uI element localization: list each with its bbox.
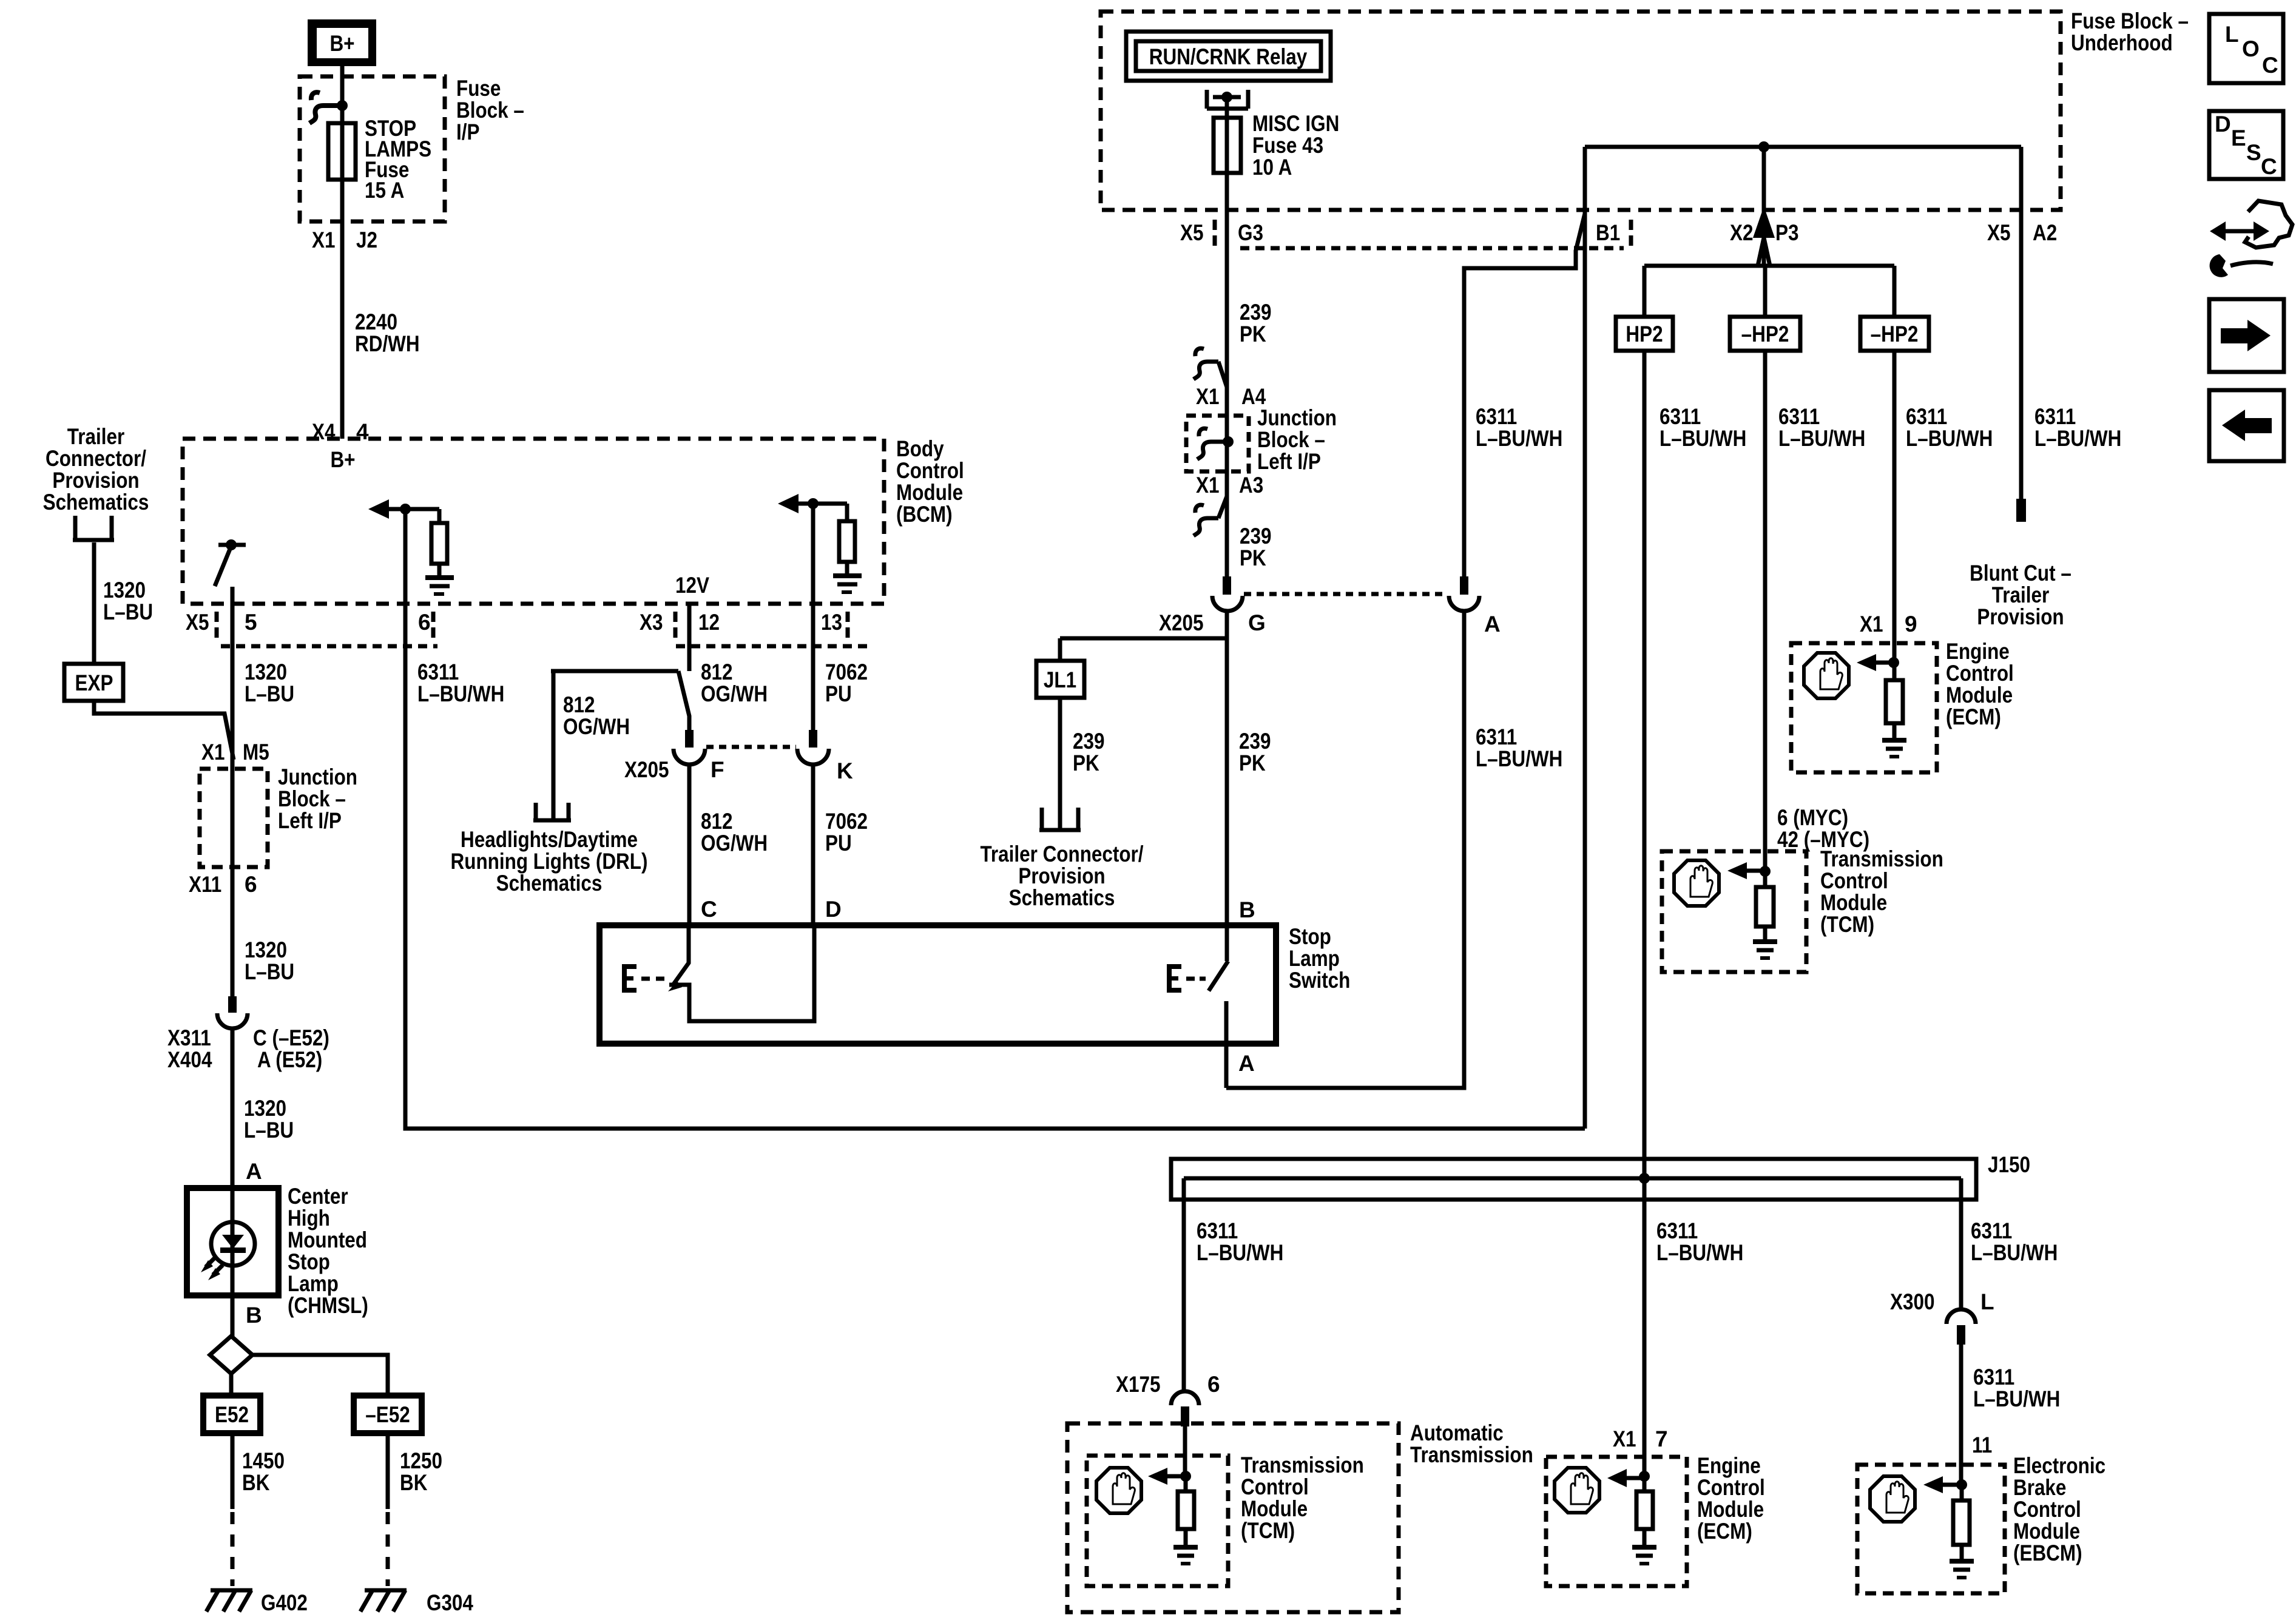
HP2 box (1616, 317, 1673, 351)
svg-text:1450: 1450 (242, 1448, 285, 1473)
svg-text:6: 6 (418, 610, 431, 635)
label Electronic Brake Control Module (EBCM) (2013, 1453, 2105, 1565)
label Trailer Connector/Provision Schematics (middle) (980, 842, 1143, 910)
wire HP2 down to J150 (1643, 351, 1647, 1474)
hook connector below X1 A3 (1194, 496, 1227, 536)
svg-text:Provision: Provision (1018, 863, 1105, 888)
svg-text:15 A: 15 A (365, 178, 404, 203)
svg-text:(EBCM): (EBCM) (2013, 1541, 2082, 1565)
BCM dashed box (183, 439, 884, 604)
svg-text:2240: 2240 (355, 309, 397, 334)
svg-text:–HP2: –HP2 (1741, 322, 1789, 346)
svg-text:X1: X1 (1196, 473, 1220, 498)
svg-text:X5: X5 (1987, 220, 2011, 245)
svg-text:(TCM): (TCM) (1820, 912, 1874, 937)
pin labels X1 J2 (312, 228, 377, 252)
svg-text:Engine: Engine (1697, 1453, 1761, 1478)
ECM dashed box (lower) (1546, 1457, 1687, 1586)
svg-text:K: K (837, 758, 853, 783)
switch pole C and blade (674, 925, 689, 984)
svg-text:12: 12 (698, 610, 720, 635)
connector row G3 (dotted) (1240, 246, 1624, 251)
label Junction Block - Left I/P (1257, 405, 1337, 474)
svg-text:E52: E52 (215, 1402, 249, 1427)
svg-text:Fuse Block –: Fuse Block – (2071, 8, 2189, 33)
connector X205 terminal A (1449, 576, 1479, 611)
connector X300 terminal L (1947, 1309, 1976, 1345)
wire BCM pin13 7062 PU (811, 504, 815, 730)
label Body Control Module (BCM) (896, 436, 964, 527)
svg-text:X2: X2 (1730, 220, 1754, 245)
pin labels C D (701, 897, 842, 922)
-HP2 box (middle) (1730, 317, 1800, 351)
wire J150 to X300 (1959, 1200, 1963, 1309)
label Fuse Block - Underhood (2071, 8, 2189, 55)
BCM internal ground 2 (833, 576, 862, 592)
connector boundary ticks G3/B1 (1215, 220, 1631, 248)
svg-text:Mounted: Mounted (288, 1227, 367, 1252)
blunt cut end (2016, 499, 2026, 522)
svg-text:Junction: Junction (278, 765, 357, 789)
relay output terminal symbol (1207, 90, 1248, 109)
svg-text:12V: 12V (675, 573, 709, 598)
svg-text:Lamp: Lamp (1289, 946, 1340, 971)
svg-text:A (E52): A (E52) (257, 1047, 322, 1072)
svg-text:–HP2: –HP2 (1871, 322, 1919, 346)
label 6311 L-BU/WH (right drop) (1971, 1218, 2058, 1265)
BCM X5 connector row (221, 644, 437, 649)
svg-text:6311: 6311 (1971, 1218, 2012, 1243)
label 6311 L-BU/WH (B1 to A) (1476, 404, 1562, 451)
BCM internal resistor (pin13) (839, 504, 855, 576)
svg-text:Brake: Brake (2013, 1475, 2066, 1500)
pin labels X5 5 6 (186, 610, 431, 635)
svg-text:Control: Control (2013, 1497, 2081, 1522)
svg-text:PK: PK (1240, 322, 1266, 346)
svg-text:X404: X404 (167, 1047, 212, 1072)
svg-text:1320: 1320 (103, 578, 146, 603)
wire switch A to X205 A (1226, 611, 1464, 1088)
wire -E52 to ground (dashed) (386, 1433, 390, 1509)
svg-text:6311: 6311 (1906, 404, 1947, 429)
svg-text:PK: PK (1073, 751, 1099, 775)
connector X205 terminal F (674, 730, 705, 765)
pin labels X1 M5 (201, 740, 269, 765)
label MISC IGN Fuse 43 10 A (1252, 111, 1339, 180)
wire MISC IGN fuse to X205 G 239 PK (1225, 97, 1229, 578)
fuse block I/P dashed box (300, 76, 445, 221)
svg-text:7: 7 (1655, 1426, 1668, 1451)
wire branch to JL1 (1060, 638, 1227, 661)
-E52 box (354, 1396, 422, 1433)
BCM X3 connector row (676, 644, 873, 649)
svg-text:X1: X1 (1196, 384, 1220, 409)
svg-text:Left I/P: Left I/P (1257, 449, 1321, 474)
svg-text:X205: X205 (624, 757, 669, 782)
svg-text:Control: Control (1820, 868, 1888, 893)
wire diamond to E52 (229, 1374, 234, 1396)
svg-text:6311: 6311 (1656, 1218, 1698, 1243)
svg-text:Provision: Provision (52, 468, 139, 493)
svg-text:HP2: HP2 (1626, 322, 1663, 346)
svg-text:Left I/P: Left I/P (278, 808, 342, 833)
svg-text:X205: X205 (1159, 610, 1204, 635)
ECM arrow lower (1607, 1469, 1650, 1487)
svg-text:13: 13 (821, 610, 842, 635)
label 7062 PU (pin13) (825, 660, 868, 706)
svg-text:Running Lights (DRL): Running Lights (DRL) (451, 849, 648, 874)
svg-text:Module: Module (2013, 1519, 2080, 1544)
label Engine Control Module (ECM) (1946, 639, 2014, 729)
internal bus wire in fuse block (1585, 145, 2021, 149)
wire JL1 to trailer connector (1058, 698, 1062, 828)
svg-text:OG/WH: OG/WH (701, 681, 768, 706)
schematic navigation icon (arrows + wrench) (2210, 201, 2292, 277)
ECM dashed box (upper) (1791, 643, 1937, 772)
TCM stop-hand icon (1674, 860, 1719, 906)
svg-text:6311: 6311 (2034, 404, 2076, 429)
wire J150 to X175 (1182, 1200, 1186, 1391)
svg-text:X5: X5 (186, 610, 209, 635)
svg-text:6311: 6311 (1973, 1365, 2014, 1389)
svg-text:C: C (2261, 154, 2277, 179)
label row 6311 L-BU/WH x4 (1660, 404, 1746, 451)
svg-text:239: 239 (1240, 524, 1272, 549)
svg-text:L–BU/WH: L–BU/WH (417, 681, 504, 706)
BCM internal arrow to pin6 (368, 499, 439, 519)
svg-text:Automatic: Automatic (1410, 1420, 1504, 1445)
svg-text:X1: X1 (1613, 1426, 1636, 1451)
wire B+ to fuse block (340, 66, 345, 439)
TCM ground lower (1173, 1547, 1198, 1564)
splice diamond (210, 1336, 252, 1374)
svg-text:RD/WH: RD/WH (355, 331, 420, 356)
svg-text:Trailer Connector/: Trailer Connector/ (980, 842, 1143, 866)
svg-text:812: 812 (563, 692, 595, 717)
svg-text:7062: 7062 (825, 809, 868, 834)
LOC legend box (2209, 14, 2283, 83)
svg-text:Control: Control (1697, 1475, 1765, 1500)
pin labels X3 12 13 (640, 610, 842, 635)
label Transmission Control Module (TCM) (1820, 846, 1943, 937)
svg-text:Transmission: Transmission (1820, 846, 1943, 871)
svg-text:PU: PU (825, 831, 852, 856)
svg-text:G3: G3 (1238, 220, 1263, 245)
svg-text:L–BU/WH: L–BU/WH (1906, 426, 1993, 451)
svg-text:Trailer: Trailer (1992, 582, 2049, 607)
svg-text:C: C (2262, 53, 2278, 78)
svg-text:L–BU/WH: L–BU/WH (1778, 426, 1865, 451)
pin labels X1 A3 (1196, 473, 1263, 498)
svg-text:Control: Control (1241, 1474, 1309, 1499)
svg-text:6311: 6311 (1197, 1218, 1238, 1243)
connector hook symbol at fuse feed (309, 92, 337, 123)
svg-text:B: B (246, 1303, 262, 1328)
label 7062 PU lower (825, 809, 868, 856)
svg-text:L–BU/WH: L–BU/WH (1476, 426, 1562, 451)
label Blunt Cut - Trailer Provision (1970, 561, 2071, 629)
svg-text:MISC IGN: MISC IGN (1252, 111, 1339, 136)
previous-page arrow box (2209, 390, 2284, 461)
node bus junction (1758, 141, 1769, 152)
svg-text:JL1: JL1 (1044, 667, 1076, 692)
wire K to switch D (811, 765, 815, 925)
node junction dot in fuse block (337, 100, 348, 111)
svg-text:L: L (2225, 22, 2239, 47)
pin labels X311 X404 (167, 1025, 212, 1072)
JL1 box (1036, 661, 1084, 698)
ECM resistor lower (1636, 1476, 1653, 1547)
wire bus to A2 (2019, 147, 2024, 499)
svg-text:–E52: –E52 (365, 1402, 410, 1427)
svg-text:Stop: Stop (1289, 924, 1331, 949)
svg-text:X11: X11 (189, 872, 221, 897)
svg-text:E: E (2231, 126, 2246, 150)
ground G402 (206, 1590, 252, 1612)
svg-text:BK: BK (242, 1470, 270, 1495)
TCM arrow lower (1148, 1468, 1191, 1485)
svg-text:5: 5 (245, 610, 257, 635)
svg-text:S: S (2246, 140, 2261, 165)
svg-text:Fuse: Fuse (456, 76, 501, 101)
svg-text:L–BU/WH: L–BU/WH (1971, 1240, 2058, 1265)
svg-text:6: 6 (245, 872, 257, 897)
label junction block left I/P (278, 765, 357, 833)
wire drop to HP2 (1643, 266, 1647, 317)
svg-text:PU: PU (825, 681, 852, 706)
fuse F43 MISC IGN 10A (1214, 118, 1241, 173)
RUN/CRNK Relay box (1126, 32, 1331, 81)
svg-text:I/P: I/P (456, 120, 480, 144)
svg-text:Schematics: Schematics (43, 490, 149, 515)
ECM stop-hand icon (1804, 653, 1849, 698)
stop lamp switch box (599, 925, 1276, 1044)
svg-text:Electronic: Electronic (2013, 1453, 2105, 1478)
ECM stop-hand icon lower (1555, 1468, 1599, 1513)
BCM internal resistor (pin6 pullup) (431, 509, 447, 578)
wire label 1320 L-BU (245, 660, 294, 706)
ECM ground lower (1632, 1547, 1656, 1564)
-HP2 box (right) (1860, 317, 1929, 351)
wire BCM pin12 812 OG/WH (678, 603, 689, 730)
svg-text:A: A (1484, 612, 1501, 636)
ground G304 (360, 1590, 407, 1612)
connector X311/X404 inline (217, 996, 248, 1028)
connector X205 terminal G (1212, 576, 1243, 611)
EXP box (64, 664, 123, 701)
label Stop Lamp Switch (1289, 924, 1350, 993)
svg-text:Module: Module (896, 480, 963, 505)
wire X311 to CHMSL 1320 L-BU (231, 1028, 235, 1336)
BCM internal ground (425, 578, 454, 594)
svg-text:10 A: 10 A (1252, 155, 1292, 180)
svg-text:A3: A3 (1239, 473, 1263, 498)
E52 box (203, 1396, 260, 1433)
svg-text:X3: X3 (640, 610, 663, 635)
svg-text:1320: 1320 (245, 660, 287, 684)
svg-text:EXP: EXP (75, 670, 113, 695)
label Automatic Transmission (1410, 1420, 1533, 1467)
wire DRL branch (551, 671, 678, 819)
svg-text:Schematics: Schematics (496, 871, 603, 896)
wire bus to P3 (1762, 147, 1766, 266)
svg-text:OG/WH: OG/WH (563, 714, 630, 739)
svg-text:J150: J150 (1988, 1152, 2030, 1177)
wire -HP2 middle down to TCM (1763, 351, 1768, 871)
connector arrow at P3 (1753, 206, 1775, 238)
label 6 (MYC) 42 (-MYC) (1777, 805, 1869, 852)
svg-text:6311: 6311 (1476, 724, 1517, 749)
svg-text:A: A (1238, 1051, 1255, 1076)
svg-text:G304: G304 (427, 1590, 473, 1615)
label Center High Mounted Stop Lamp (CHMSL) (288, 1184, 368, 1318)
svg-text:1320: 1320 (244, 1096, 286, 1121)
connector X175 terminal 6 (1171, 1391, 1199, 1426)
svg-text:D: D (2215, 112, 2231, 137)
J150 splice pack (1171, 1159, 1976, 1200)
svg-text:X300: X300 (1890, 1289, 1935, 1314)
svg-text:7062: 7062 (825, 660, 868, 684)
pin labels X4 4 (312, 419, 369, 444)
pin labels X1 A4 (1196, 384, 1266, 409)
connector X205 terminal K (797, 730, 829, 765)
wire -HP2 right down to ECM (1893, 351, 1897, 663)
svg-text:239: 239 (1239, 729, 1271, 754)
svg-text:L–BU/WH: L–BU/WH (1973, 1386, 2060, 1411)
TCM dashed box (lower) (1087, 1456, 1228, 1586)
svg-text:1320: 1320 (245, 937, 287, 962)
label fuse block I/P (456, 76, 524, 144)
label 239 PK lower (1240, 524, 1272, 570)
svg-text:Transmission: Transmission (1241, 1453, 1364, 1477)
ECM arrow (1857, 654, 1899, 671)
svg-text:Fuse 43: Fuse 43 (1252, 133, 1323, 158)
junction block left I/P dashed box (200, 769, 268, 867)
svg-text:Engine: Engine (1946, 639, 2010, 664)
TCM arrow (1727, 862, 1771, 879)
svg-text:High: High (288, 1206, 330, 1230)
wire B1 jog to X205 A drop (1464, 214, 1585, 576)
pin labels X5 G3 B1 X2 P3 X5 A2 (1180, 220, 2057, 245)
label 6311 L-BU/WH (middle drop) (1656, 1218, 1743, 1265)
svg-text:L: L (1980, 1289, 1994, 1314)
wire drop to -HP2 (right) (1893, 266, 1897, 317)
automatic transmission dashed box (1067, 1423, 1399, 1612)
labels X205 G A (1159, 610, 1501, 636)
EBCM arrow (1923, 1476, 1967, 1493)
svg-text:6311: 6311 (1476, 404, 1517, 429)
svg-text:Connector/: Connector/ (46, 446, 146, 471)
labels X205 F K (624, 757, 853, 783)
svg-text:(ECM): (ECM) (1697, 1519, 1752, 1544)
svg-text:O: O (2242, 36, 2260, 61)
svg-text:L–BU/WH: L–BU/WH (1197, 1240, 1283, 1265)
svg-text:11: 11 (1972, 1433, 1992, 1457)
fuse block underhood dashed box (1101, 12, 2061, 210)
svg-text:Block –: Block – (1257, 427, 1325, 452)
svg-text:9: 9 (1905, 612, 1917, 636)
svg-text:Provision: Provision (1977, 604, 2064, 629)
switch pole B and blade (right) (1209, 925, 1228, 991)
BCM internal arrow to pin13 (778, 494, 847, 513)
svg-text:D: D (825, 897, 842, 922)
pin labels C (-E52) A (E52) (253, 1025, 329, 1072)
svg-text:L–BU: L–BU (245, 681, 294, 706)
EBCM stop-hand icon (1870, 1476, 1915, 1522)
svg-text:B+: B+ (329, 31, 354, 56)
wire F to switch C (687, 765, 692, 925)
svg-text:(BCM): (BCM) (896, 502, 953, 527)
svg-text:RUN/CRNK Relay: RUN/CRNK Relay (1149, 44, 1308, 69)
hook connector inside junction block + node (1197, 428, 1227, 459)
TCM dashed box (middle) (1662, 851, 1806, 972)
wire drop to -HP2 (middle) (1763, 266, 1768, 317)
svg-text:B1: B1 (1596, 220, 1620, 245)
svg-text:(TCM): (TCM) (1241, 1518, 1295, 1543)
wire bus to B1 and down (1583, 147, 1587, 1129)
svg-text:Trailer: Trailer (67, 424, 124, 449)
svg-text:Block –: Block – (278, 786, 346, 811)
label Engine Control Module (ECM) lower (1697, 1453, 1765, 1544)
svg-text:J2: J2 (356, 228, 377, 252)
svg-text:L–BU: L–BU (103, 599, 153, 624)
label 812 OG/WH (pin12) (701, 660, 768, 706)
svg-text:Module: Module (1241, 1496, 1308, 1521)
pin labels X1 9 (1860, 612, 1917, 636)
svg-text:(CHMSL): (CHMSL) (288, 1293, 368, 1318)
svg-text:812: 812 (701, 809, 733, 834)
svg-text:X1: X1 (201, 740, 225, 765)
dotted connector line G-A (1244, 592, 1448, 596)
svg-text:239: 239 (1073, 729, 1105, 754)
svg-text:L–BU/WH: L–BU/WH (2034, 426, 2121, 451)
label Headlights/Daytime Running Lights (DRL) Schematics (451, 827, 648, 896)
fuse F1 STOP LAMPS 15A (328, 123, 356, 180)
svg-text:Lamp: Lamp (288, 1271, 339, 1296)
label 812 OG/WH (DRL) (563, 692, 630, 739)
wire trailer to EXP (94, 542, 234, 760)
DESC legend box (2209, 111, 2283, 179)
wire G to switch B 239 PK (1225, 611, 1229, 925)
switch linkage E (left) (622, 964, 636, 993)
node J150 junction (1639, 1173, 1650, 1184)
svg-text:OG/WH: OG/WH (701, 831, 768, 856)
svg-text:6311: 6311 (1778, 404, 1820, 429)
LED light arrows (201, 1257, 223, 1280)
connector boundary ticks X3 row (675, 612, 848, 641)
BCM internal switch (pin5 driver) (215, 539, 246, 586)
svg-text:BK: BK (400, 1470, 428, 1495)
svg-text:X5: X5 (1180, 220, 1204, 245)
svg-text:1250: 1250 (400, 1448, 442, 1473)
wire X300 to EBCM (1959, 1345, 1963, 1485)
svg-text:Module: Module (1697, 1497, 1764, 1522)
wire diamond right branch to -E52 (252, 1355, 388, 1396)
svg-text:6311: 6311 (1660, 404, 1701, 429)
P3 fan-out horizontal (1644, 264, 1894, 268)
label 6311 L-BU/WH (left drop) (1197, 1218, 1283, 1265)
svg-text:F: F (711, 757, 724, 782)
ECM resistor (1886, 663, 1903, 740)
label 6311 L-BU/WH (X300) (1973, 1365, 2060, 1411)
svg-text:Transmission: Transmission (1410, 1442, 1533, 1467)
svg-text:Module: Module (1946, 683, 2013, 707)
svg-text:Schematics: Schematics (1009, 885, 1115, 910)
svg-text:Body: Body (896, 436, 944, 461)
svg-text:L–BU/WH: L–BU/WH (1656, 1240, 1743, 1265)
svg-text:L–BU: L–BU (245, 959, 294, 984)
svg-text:Headlights/Daytime: Headlights/Daytime (461, 827, 638, 852)
